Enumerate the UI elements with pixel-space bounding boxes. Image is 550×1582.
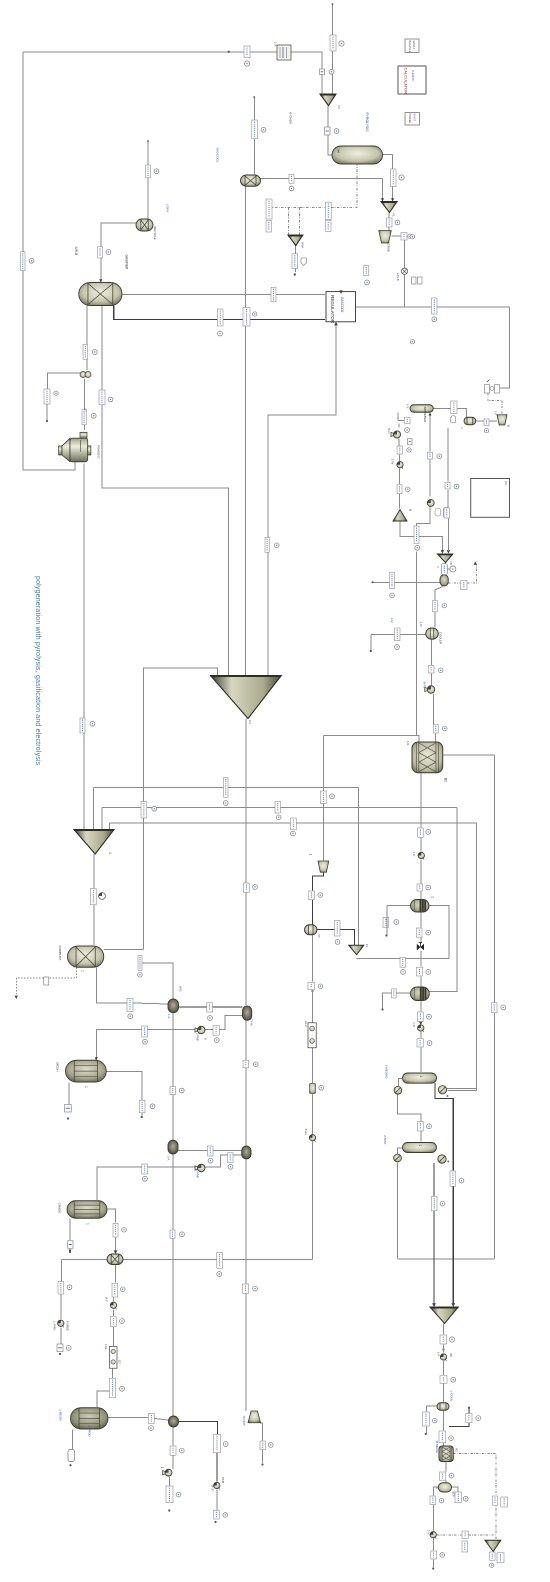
wire capsule5 left: [433, 1487, 438, 1496]
wire hx3 leg down: [172, 1155, 174, 1416]
arrow into F4 right: [451, 1303, 455, 1307]
funnel F2 ash: [288, 235, 303, 246]
wire meth chain a: [420, 772, 422, 828]
svg-text:M: M: [409, 509, 413, 512]
circle L85: [253, 1286, 258, 1291]
label L64: [207, 1003, 213, 1012]
wire V33 bottom c: [420, 1032, 422, 1038]
svg-text:COMBUST: COMBUST: [58, 946, 62, 961]
svg-text:1-R: 1-R: [406, 741, 410, 747]
label L106: [431, 1551, 437, 1559]
hx H3 drum: [168, 1140, 178, 1154]
wire funnel4 tip down: [443, 1324, 445, 1335]
circle L65: [501, 1005, 506, 1010]
label L39: [390, 572, 395, 588]
wire treat lbl link: [398, 419, 404, 421]
wire electro feed b: [312, 990, 314, 1023]
label L65: [492, 1003, 498, 1013]
label L61: [417, 967, 423, 976]
wire barrel2 bottom b: [445, 1481, 447, 1484]
condenser X2: [394, 1154, 402, 1162]
wire steam chain3: [216, 1490, 218, 1511]
svg-text:B-MEOH: B-MEOH: [435, 1441, 439, 1453]
circle L68: [214, 1038, 219, 1043]
circle L81: [122, 1227, 127, 1232]
wire cooler stub: [370, 635, 372, 650]
wire dashdot valve purge b: [469, 1534, 496, 1536]
label L62: [308, 982, 315, 990]
svg-text:RECYCLE: RECYCLE: [153, 226, 157, 239]
reboiler R1: [438, 1086, 446, 1094]
svg-text:R2: R2: [455, 1448, 459, 1452]
wire flash out solid: [373, 581, 441, 583]
label L78: [142, 1164, 148, 1174]
circle L15: [218, 331, 223, 336]
wire heater5 steam out: [179, 1422, 218, 1435]
label L45: [80, 718, 85, 733]
svg-text:ELZ: ELZ: [304, 1021, 308, 1027]
label L7 recycle: [146, 165, 151, 178]
hx H4 drum: [242, 1146, 251, 1159]
label L43: [428, 666, 434, 674]
circle L58: [426, 930, 431, 935]
condenser X1: [394, 1086, 402, 1094]
svg-text:B-ST: B-ST: [211, 1485, 215, 1492]
wire y823 drop to cone2: [109, 823, 111, 829]
circle L47: [152, 806, 157, 811]
wire V33 bottom a: [420, 1001, 422, 1012]
label L11a: [266, 199, 272, 219]
valve VA5: [418, 1025, 424, 1032]
label L41: [395, 628, 401, 641]
wire steam chain2: [216, 1453, 218, 1482]
node vent end: [46, 420, 48, 422]
wire recycle drum feed: [147, 141, 149, 219]
node purge end: [59, 1353, 61, 1355]
svg-text:1-MEOHD: 1-MEOHD: [385, 1065, 389, 1080]
svg-text:FB: FB: [449, 561, 453, 565]
funnel F4 product: [430, 1307, 458, 1324]
label L88: [111, 1317, 117, 1327]
wire y807 drop to cone2: [101, 808, 103, 830]
block calc label2: [405, 113, 420, 126]
svg-text:MEOH: MEOH: [56, 1063, 60, 1072]
funnel FB quench: [438, 554, 453, 563]
canister CYL1: [310, 1084, 316, 1094]
label L73: [170, 1087, 176, 1095]
svg-text:1: 1: [460, 427, 464, 429]
circle L48: [330, 794, 335, 799]
label L32: [428, 452, 433, 459]
circle L24: [54, 391, 58, 395]
label L89: [57, 1344, 63, 1352]
wire dashed combustor drain: [49, 967, 76, 978]
valve VA4 letdown: [418, 852, 424, 859]
label L63: [127, 999, 133, 1012]
wire box B1 outlet to funnel F0: [291, 52, 322, 95]
wire electro2 to tank3: [97, 1391, 110, 1407]
wire capsule25 to cyclone: [476, 420, 484, 422]
svg-text:polygeneration with pyrolysis,: polygeneration with pyrolysis, gasificat…: [34, 576, 41, 766]
node drum6 side end: [425, 1433, 427, 1435]
circle L52: [253, 885, 258, 890]
wire meth chain f: [420, 938, 422, 944]
label L104: [455, 1492, 462, 1503]
circle L102: [476, 1416, 481, 1421]
label L79: [450, 1171, 456, 1186]
label L17: [364, 266, 369, 276]
wire purge leg x61: [60, 1260, 62, 1282]
svg-text:1-D: 1-D: [412, 1022, 416, 1028]
label L103: [440, 1472, 446, 1480]
cyclone V36: [318, 861, 329, 872]
label L16: [243, 308, 250, 327]
svg-text:1: 1: [431, 896, 435, 898]
label L81: [113, 1223, 118, 1237]
circle L7: [154, 169, 159, 174]
circle L20: [29, 258, 34, 263]
wire crude meoh header right: [123, 1259, 313, 1261]
hx H2 drum: [243, 1006, 252, 1020]
circle L16: [253, 312, 257, 316]
wire funnel5 tip: [492, 1552, 494, 1559]
wire meoh pump line: [96, 1015, 242, 1059]
wire recycle bottom: [398, 1258, 495, 1260]
wire column2 bottoms b: [433, 1211, 435, 1305]
circle L82: [180, 1232, 185, 1237]
label V33 feed: [392, 989, 397, 998]
pump P11 booster: [99, 893, 106, 900]
circle L1: [244, 61, 249, 66]
wire dashdot char drop 1: [288, 208, 290, 236]
svg-text:SEP: SEP: [452, 1491, 456, 1497]
label L26 turb: [82, 410, 86, 425]
electrolyzer E1: [308, 1023, 316, 1048]
svg-text:1-W: 1-W: [391, 459, 395, 465]
label L27: [405, 417, 411, 423]
label L76: [208, 1146, 214, 1156]
circle L91: [451, 1377, 456, 1382]
valve VA7 mixfeed: [110, 1302, 116, 1309]
vessel CAP5: [438, 1483, 451, 1492]
label pair right edge: [412, 277, 423, 284]
label L8: [252, 120, 258, 139]
wire V33 bottom d: [420, 1048, 422, 1073]
circle L99: [223, 1513, 228, 1518]
svg-text:B1: B1: [444, 778, 448, 782]
label L109b: [497, 1553, 504, 1563]
wire bell out2: [262, 1450, 264, 1464]
wire y807 right leg to V33: [429, 808, 457, 992]
circle L49: [276, 815, 281, 820]
circle L50: [291, 831, 296, 836]
circle L45: [90, 721, 95, 726]
arrow mixer feed: [114, 1250, 118, 1254]
circle L109: [490, 1563, 494, 1567]
tank T2 crude storage: [67, 1201, 107, 1219]
hx H5 drum: [169, 1416, 179, 1427]
circle L77: [228, 1164, 233, 1169]
circle L106: [440, 1553, 445, 1558]
circle L44: [442, 726, 447, 731]
svg-text:W: W: [507, 425, 511, 428]
wire v26 chain: [429, 415, 431, 452]
svg-text:CALCULATOR: CALCULATOR: [404, 68, 409, 95]
label L46: [224, 778, 229, 798]
wire meth chain h: [420, 977, 422, 988]
wire h5chain3: [169, 1477, 171, 1486]
wire gray to funnel3: [358, 788, 360, 946]
label L70: [243, 1060, 249, 1068]
node tank2 drain end: [69, 1251, 71, 1253]
label L12a: [325, 202, 331, 219]
wire tank2 recycle loop: [97, 1155, 242, 1200]
wire right riser to L19: [500, 307, 510, 388]
label L87: [112, 1283, 118, 1297]
node steam end: [214, 1521, 216, 1523]
node sep top: [253, 96, 255, 98]
label L72: [139, 1100, 145, 1113]
circle L80: [440, 1201, 445, 1206]
wire c5 chain d: [432, 1560, 434, 1568]
cone mix junction V27: [393, 510, 407, 521]
label L20: [21, 252, 26, 271]
svg-text:BALANCE: BALANCE: [408, 41, 412, 53]
svg-text:1-V: 1-V: [427, 1530, 431, 1535]
svg-text:POWER: POWER: [408, 114, 412, 124]
circle L10: [408, 234, 412, 238]
wire drum6 bottom: [442, 1411, 444, 1431]
wire combustor flue out: [104, 949, 144, 951]
wire tank1 reflux: [106, 1072, 142, 1117]
svg-text:1: 1: [419, 1076, 423, 1078]
wire cooler drum left line: [371, 634, 426, 636]
label L11b: [266, 221, 272, 233]
wire cone1 tip to hx: [245, 719, 247, 1006]
wire column2 reflux loop: [397, 1163, 399, 1259]
svg-text:ABSORBER: ABSORBER: [423, 407, 427, 423]
svg-text:GASCOOL: GASCOOL: [216, 148, 220, 163]
label L107b: [462, 1541, 468, 1552]
arrow into tank1 top: [95, 1057, 98, 1060]
circle L54: [426, 885, 431, 890]
wire column1 bottoms: [435, 1083, 453, 1170]
label L12b: [325, 220, 331, 231]
svg-text:1-P: 1-P: [437, 1352, 441, 1357]
compressor P3: [391, 431, 401, 438]
svg-text:GASIFIER: GASIFIER: [125, 255, 129, 271]
funnel F1 separator: [381, 202, 397, 213]
label L86: [58, 1282, 64, 1295]
valve VA3 pair: [80, 372, 91, 378]
valve VA8 purge: [58, 1320, 64, 1327]
wire purge leg2: [60, 1294, 62, 1319]
label L36: [444, 508, 450, 518]
wire dashdot char drop 2: [299, 208, 301, 236]
compressor P5: [425, 686, 435, 694]
label L2 N2: [330, 35, 336, 51]
wire hx3-hx4: [178, 1149, 242, 1151]
wire hx1 leg x173: [172, 1014, 174, 1141]
vessel V1 gasifier: [79, 283, 122, 306]
svg-text:3-A: 3-A: [167, 1156, 171, 1161]
circle L90: [449, 1337, 454, 1342]
wire regulator bottom loop: [268, 322, 336, 675]
vessel V25 knockout: [464, 417, 476, 425]
wire steam L-loop to cone1: [102, 306, 229, 676]
wire meth chain c: [420, 860, 422, 884]
label L30: [397, 446, 403, 454]
cyclone V24 wash: [497, 415, 507, 425]
svg-text:GT: GT: [84, 408, 88, 412]
wire column1 bottoms b: [452, 1187, 454, 1306]
wire tank1 drain: [68, 1083, 70, 1105]
svg-text:1-PMP: 1-PMP: [195, 1033, 199, 1042]
circle L78: [143, 1176, 148, 1181]
pump P10 left: [163, 1469, 173, 1476]
circle right edge b: [410, 340, 414, 344]
arrow FB right feed: [447, 550, 450, 553]
stack chimney BELL: [248, 1411, 261, 1423]
wire drum5 out: [317, 930, 355, 946]
svg-text:1: 1: [80, 970, 84, 972]
wire drum6 side: [427, 1406, 438, 1412]
tank T1 meoh storage: [66, 1060, 107, 1082]
label L82: [170, 1230, 175, 1238]
wire ash leg branch to vent: [48, 373, 86, 389]
label L94: [214, 1435, 221, 1453]
relief icon drain: [44, 977, 49, 985]
circle L37: [274, 543, 279, 548]
svg-text:F3: F3: [365, 944, 369, 948]
label L42: [433, 601, 438, 612]
wire capsule5 right: [452, 1487, 459, 1492]
wire v26 chain b: [429, 460, 431, 497]
label L49: [275, 802, 281, 814]
node electro feed: [311, 990, 313, 992]
circle L46: [223, 801, 228, 806]
svg-text:HX: HX: [504, 481, 508, 485]
arrow dashdot end: [474, 562, 477, 565]
circle L33: [415, 545, 420, 550]
circle L105: [439, 1498, 444, 1503]
wire fB tip: [445, 563, 447, 575]
svg-text:1-S: 1-S: [406, 404, 410, 409]
wire fb top feed: [447, 428, 449, 482]
wire c5 chain c: [432, 1539, 434, 1551]
label L69: [417, 1039, 423, 1048]
valve VA10 product: [440, 1354, 446, 1361]
label L29: [484, 419, 489, 426]
pump P2 recycle: [195, 1164, 205, 1172]
wire drum6 side b: [426, 1427, 428, 1434]
wire regulator out right: [356, 306, 510, 308]
label L13 ash: [292, 254, 298, 269]
node cooler stub end: [370, 650, 372, 652]
wire bell out: [260, 1423, 263, 1441]
wire drum6 bottom b: [442, 1443, 444, 1446]
circle L98: [176, 1492, 181, 1497]
circle L51: [426, 830, 431, 835]
label L68: [213, 1025, 219, 1035]
funnel F0 feeder: [320, 94, 336, 106]
tank T3 product storage: [71, 1408, 109, 1429]
wire V33 bottom b: [420, 1022, 422, 1025]
svg-text:H: H: [336, 149, 341, 152]
label L6: [289, 174, 294, 183]
svg-text:1: 1: [108, 852, 112, 854]
wire y823 right leg to reboiler1: [448, 823, 477, 1090]
arrow chain V33: [419, 1022, 422, 1025]
circle L2: [339, 41, 344, 46]
circle L35: [454, 484, 459, 489]
label L96 rounded: [68, 1450, 75, 1462]
circle L100: [432, 1418, 437, 1423]
svg-text:1: 1: [435, 1487, 439, 1489]
wire meth chain e: [420, 912, 422, 928]
wire long gas line to cone1: [245, 186, 247, 675]
vessel PYRO pyrolysis reactor: [332, 146, 383, 164]
wire tank3 drain: [72, 1430, 74, 1450]
svg-text:F0: F0: [337, 105, 341, 109]
wire bottom header y787: [94, 787, 359, 789]
label L37: [265, 537, 269, 552]
label L48: [321, 791, 327, 804]
wire c5 chain b: [432, 1505, 434, 1531]
node h5 end: [168, 1509, 170, 1511]
block REGULATOR box: [326, 292, 356, 324]
node c5 end: [432, 1567, 434, 1569]
cone C1 gas collector: [211, 676, 282, 719]
label L15 hotgas: [218, 309, 224, 326]
label L91: [440, 1376, 447, 1384]
label L14: [271, 287, 276, 302]
label L77: [228, 1153, 234, 1163]
block CALCULATOR: [398, 66, 426, 94]
label L38 tombstone: [441, 564, 447, 575]
vessel V30 cooler: [426, 628, 439, 639]
circle L31: [405, 487, 410, 492]
reboiler R2: [438, 1155, 446, 1163]
wire tank3 out: [108, 1417, 148, 1419]
wire treat top: [397, 413, 399, 421]
svg-text:1-B: 1-B: [419, 622, 423, 627]
circle L75: [427, 1124, 432, 1129]
block empty box H1: [471, 479, 510, 518]
wire left main riser to turbine: [23, 52, 75, 470]
wire flash dashdot b: [468, 561, 477, 584]
block B1 feed: [277, 45, 291, 60]
svg-text:REGULATOR: REGULATOR: [330, 295, 335, 324]
svg-text:PURGE: PURGE: [66, 1321, 70, 1331]
label L56: [383, 917, 389, 927]
arrow FB left feed: [441, 550, 444, 553]
circle L62: [318, 984, 323, 989]
wire meth chain d: [420, 892, 422, 900]
circle L26: [91, 413, 96, 418]
arrow into regulator top: [339, 290, 343, 294]
circle L59: [138, 972, 143, 977]
node tank3 drain end: [69, 1464, 71, 1466]
wire hot header y807: [102, 807, 457, 809]
circle L39: [390, 593, 395, 598]
circle L57: [335, 940, 340, 945]
wire dashdot L19 to cyclone: [488, 394, 502, 415]
mixer M1 drum: [107, 1254, 123, 1265]
wire funnel F0 to pyro feed: [328, 106, 333, 156]
label L105: [430, 1496, 436, 1505]
label L28: [451, 401, 457, 414]
